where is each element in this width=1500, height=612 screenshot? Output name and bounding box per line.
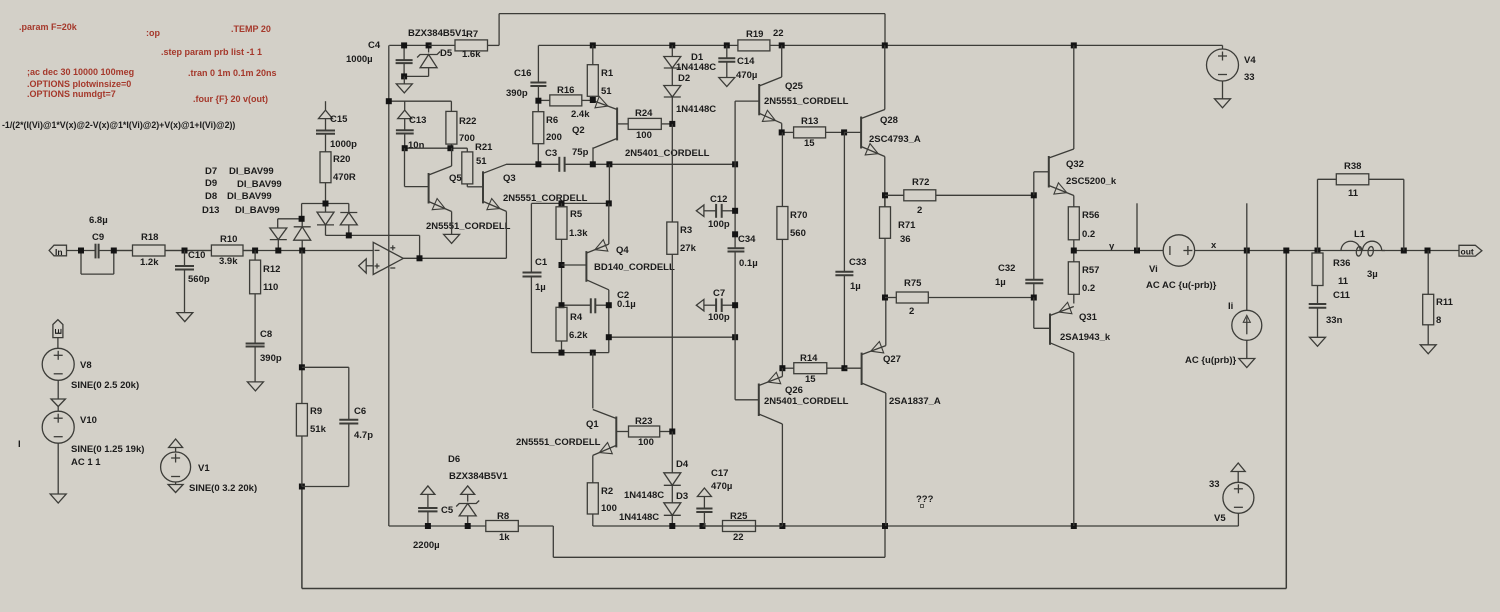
value SINE V8	[71, 380, 139, 391]
label C15	[330, 114, 348, 125]
wire R9/C6 top link	[302, 367, 349, 420]
resistor R72	[885, 190, 1034, 201]
resistor R56	[1068, 207, 1079, 251]
wire R38 right leg	[1403, 179, 1405, 250]
label C2	[617, 290, 629, 301]
label V10	[80, 415, 97, 426]
label Q4	[616, 245, 629, 256]
wire comp line y337	[609, 336, 735, 338]
label R8	[497, 511, 509, 522]
resistor R12	[250, 251, 261, 344]
svg-text:C14: C14	[737, 56, 755, 67]
svg-text:.OPTIONS plotwinsize=0: .OPTIONS plotwinsize=0	[27, 79, 131, 89]
port out	[1459, 245, 1482, 256]
label BZX384B5V1 top	[408, 28, 467, 39]
svg-text:DI_BAV99: DI_BAV99	[235, 205, 280, 216]
svg-text:51k: 51k	[310, 424, 327, 435]
svg-text:15: 15	[804, 138, 815, 149]
resistor R1	[587, 45, 598, 100]
value DI_BAV99 D8	[227, 191, 272, 202]
label C12	[710, 194, 727, 205]
svg-text:33: 33	[1209, 479, 1220, 490]
svg-text:110: 110	[263, 282, 278, 293]
svg-text:1N4148C: 1N4148C	[619, 512, 659, 523]
svg-text:C7: C7	[713, 288, 725, 299]
svg-text:1N4148C: 1N4148C	[676, 62, 716, 73]
transistor Q27	[862, 342, 886, 394]
svg-text:470R: 470R	[333, 172, 356, 183]
resistor R38	[1336, 174, 1404, 185]
ground under V1	[168, 482, 183, 493]
svg-text:R23: R23	[635, 416, 652, 427]
junction dots spreader top	[559, 200, 612, 206]
svg-text:C13: C13	[409, 115, 426, 126]
label R25	[730, 511, 748, 522]
junction dots bias line	[402, 145, 454, 151]
ground under Ii	[1239, 340, 1255, 367]
ground under C10	[177, 313, 193, 322]
label Q31	[1079, 312, 1098, 323]
svg-text:C3: C3	[545, 148, 557, 159]
label Q26	[785, 385, 803, 396]
svg-text:1N4148C: 1N4148C	[624, 490, 664, 501]
value 1000u	[346, 54, 373, 65]
wire supply branch y101	[389, 101, 452, 111]
svg-text:R71: R71	[898, 220, 916, 231]
diode D9 pair left-up	[294, 219, 311, 251]
value 1.6k	[462, 49, 481, 60]
svg-text:Q3: Q3	[503, 173, 516, 184]
voltage source V1	[161, 452, 191, 482]
value 100 R23	[638, 437, 654, 448]
svg-text:R24: R24	[635, 108, 653, 119]
svg-text:C17: C17	[711, 468, 728, 479]
ground under R11	[1420, 345, 1436, 354]
label V4	[1244, 55, 1256, 66]
label R5	[570, 209, 583, 220]
svg-text:11: 11	[1348, 188, 1359, 199]
svg-text:Q28: Q28	[880, 115, 898, 126]
svg-text:Vi: Vi	[1149, 264, 1158, 275]
label R70	[790, 210, 807, 221]
value 390p C16	[506, 88, 528, 99]
zener diode D6	[456, 486, 479, 526]
diode D7 pair left-down	[270, 228, 287, 251]
label R16	[557, 85, 574, 96]
svg-text:27k: 27k	[680, 243, 697, 254]
svg-text:R25: R25	[730, 511, 748, 522]
wire R13 to Q28 base	[844, 131, 861, 133]
value 15 R13	[804, 138, 815, 149]
value DI_BAV99 D7	[229, 166, 274, 177]
label 2SC5200_k	[1066, 176, 1117, 187]
svg-text:C15: C15	[330, 114, 348, 125]
svg-text:V5: V5	[1214, 513, 1226, 524]
arrow above V1	[169, 439, 183, 452]
value 200	[546, 132, 562, 143]
svg-text:11: 11	[1338, 276, 1349, 287]
label 2N5551_CORDELL Q25	[764, 96, 849, 107]
label R72	[912, 177, 929, 188]
svg-text:0.2: 0.2	[1082, 283, 1095, 294]
transistor Q4	[586, 240, 608, 290]
svg-text:Q31: Q31	[1079, 312, 1098, 323]
svg-text:R38: R38	[1344, 161, 1361, 172]
junction dot supply branch	[386, 98, 392, 104]
label 2SA1837_A	[889, 396, 941, 407]
value DI_BAV99 D9	[237, 179, 282, 190]
wire cascode stub	[608, 164, 610, 203]
label R75	[904, 278, 922, 289]
value 700	[459, 133, 475, 144]
label R10	[220, 234, 237, 245]
svg-text:D4: D4	[676, 459, 689, 470]
value AC Ii	[1185, 355, 1236, 366]
resistor R2	[587, 483, 598, 526]
svg-text:1.2k: 1.2k	[140, 257, 159, 268]
svg-text:In: In	[55, 247, 63, 257]
svg-text:2N5401_CORDELL: 2N5401_CORDELL	[764, 396, 849, 407]
wire output line	[1074, 250, 1459, 252]
label Q28	[880, 115, 898, 126]
junction dots C5 D6	[425, 523, 471, 529]
label 2N5401_CORDELL Q2	[625, 148, 710, 159]
label I marker	[18, 439, 21, 450]
svg-text:560: 560	[790, 228, 806, 239]
svg-text:DI_BAV99: DI_BAV99	[229, 166, 274, 177]
svg-text:.four {F} 20 v(out): .four {F} 20 v(out)	[193, 94, 268, 104]
resistor R16	[538, 95, 592, 106]
value 2 R72	[917, 205, 922, 216]
svg-text:.tran 0 1m 0.1m 20ns: .tran 0 1m 0.1m 20ns	[188, 68, 277, 78]
inductor L1	[1341, 241, 1385, 256]
label Q1	[586, 419, 599, 430]
label node y	[1109, 241, 1115, 252]
label 2SA1943_k	[1060, 332, 1111, 343]
svg-text:470µ: 470µ	[736, 70, 757, 81]
value 470u C14	[736, 70, 757, 81]
svg-text:R10: R10	[220, 234, 237, 245]
label D6	[448, 454, 460, 465]
svg-text:C32: C32	[998, 263, 1015, 274]
value 1N4148C D1	[676, 62, 716, 73]
label V8	[80, 360, 92, 371]
label R20	[333, 154, 350, 165]
svg-text:2SA1943_k: 2SA1943_k	[1060, 332, 1111, 343]
value 1.2k	[140, 257, 159, 268]
svg-text:R13: R13	[801, 116, 818, 127]
label R3	[680, 225, 692, 236]
wire Q27 emitter up	[885, 298, 887, 346]
svg-text:R5: R5	[570, 209, 583, 220]
value 0.1u C34	[739, 258, 758, 269]
value 1N4148C D4	[624, 490, 664, 501]
svg-text:BZX384B5V1: BZX384B5V1	[449, 471, 508, 482]
diode D1	[664, 45, 681, 85]
wire Q4 base	[562, 264, 587, 266]
value 1u C33	[850, 281, 861, 292]
svg-text:E: E	[53, 328, 63, 334]
label R6	[546, 115, 558, 126]
svg-text:R3: R3	[680, 225, 692, 236]
label R9	[310, 406, 322, 417]
diode D8 pair right-down	[317, 204, 334, 236]
value 6.2k	[569, 330, 588, 341]
value 36	[900, 234, 911, 245]
spice directive .step	[161, 47, 262, 57]
svg-text:R36: R36	[1333, 258, 1350, 269]
svg-text:DI_BAV99: DI_BAV99	[227, 191, 272, 202]
wire Q32 collector up	[1073, 45, 1075, 149]
svg-text:Q27: Q27	[883, 354, 901, 365]
transistor Q2	[593, 96, 617, 148]
label Q25	[785, 81, 804, 92]
capacitor C6	[302, 420, 358, 487]
capacitor C7	[696, 298, 735, 312]
svg-text:D3: D3	[676, 491, 688, 502]
value 51 R1	[601, 86, 612, 97]
resistor R4	[556, 307, 567, 352]
value 51k	[310, 424, 327, 435]
label node x	[1211, 240, 1217, 251]
value 0.2 R56	[1082, 229, 1095, 240]
svg-text:R75: R75	[904, 278, 922, 289]
value 33 V5	[1209, 479, 1220, 490]
capacitor C4	[396, 45, 413, 76]
svg-text:100p: 100p	[708, 219, 730, 230]
label C14	[737, 56, 755, 67]
resistor R14	[782, 363, 844, 374]
wire bottom rail	[302, 251, 1286, 589]
label R14	[800, 353, 818, 364]
value 1000p	[330, 139, 357, 150]
svg-text:Q26: Q26	[785, 385, 803, 396]
wire R14 to Q27 base	[844, 367, 861, 369]
label D1	[691, 52, 704, 63]
svg-text:V8: V8	[80, 360, 92, 371]
svg-text:C6: C6	[354, 406, 366, 417]
junction dots VAS line	[535, 161, 738, 167]
svg-text:C4: C4	[368, 40, 381, 51]
wire main positive rail	[539, 44, 1223, 46]
value 560p	[188, 274, 210, 285]
wire neg supply line	[389, 526, 885, 557]
value 22 R19	[773, 28, 784, 39]
svg-text:2N5401_CORDELL: 2N5401_CORDELL	[625, 148, 710, 159]
expression text	[2, 120, 235, 130]
label R19	[746, 29, 763, 40]
svg-text:R2: R2	[601, 486, 613, 497]
value 3.9k	[219, 256, 238, 267]
svg-text:.OPTIONS numdgt=7: .OPTIONS numdgt=7	[27, 89, 116, 99]
wire to Q31 base	[1034, 298, 1050, 329]
transistor Q3	[483, 164, 506, 211]
wire supply vertical left	[388, 45, 390, 526]
wire bias line y148	[405, 147, 468, 149]
svg-text:R1: R1	[601, 68, 614, 79]
svg-text:1.6k: 1.6k	[462, 49, 481, 60]
label C32	[998, 263, 1015, 274]
capacitor C16	[530, 45, 546, 100]
label C5	[441, 505, 454, 516]
wire Q25 emitter down	[781, 123, 783, 132]
value BZX384B5V1 D6	[449, 471, 508, 482]
label R56	[1082, 210, 1099, 221]
ground under C8	[247, 382, 263, 391]
svg-text:.TEMP 20: .TEMP 20	[231, 24, 271, 34]
svg-text:15: 15	[805, 374, 816, 385]
wire clamp bottom line	[326, 235, 420, 258]
svg-text:Q25: Q25	[785, 81, 804, 92]
wire Q31 collector down	[1073, 353, 1075, 526]
wire output bus	[593, 525, 1239, 527]
label R36	[1333, 258, 1350, 269]
diode D2	[664, 86, 681, 124]
svg-text:2N5551_CORDELL: 2N5551_CORDELL	[426, 221, 511, 232]
label 2N5401_CORDELL Q26	[764, 396, 849, 407]
value 560	[790, 228, 806, 239]
resistor R20	[320, 152, 331, 204]
svg-text:2SC4793_A: 2SC4793_A	[869, 134, 921, 145]
junction dots C32	[1031, 192, 1037, 300]
label 2N5551_CORDELL Q5	[426, 221, 511, 232]
ground under C11	[1310, 337, 1326, 346]
value DI_BAV99 D13	[235, 205, 280, 216]
label R7	[466, 29, 478, 40]
wire Q1 collector	[592, 353, 594, 409]
wire Q4 emitter up	[608, 203, 610, 244]
svg-text:100: 100	[636, 130, 652, 141]
value 1k	[499, 532, 510, 543]
junction dots input line	[78, 248, 305, 254]
value 100p C12	[708, 219, 730, 230]
svg-text:DI_BAV99: DI_BAV99	[237, 179, 282, 190]
resistor R24	[628, 118, 672, 129]
svg-text:200: 200	[546, 132, 562, 143]
svg-text:SINE(0 3.2 20k): SINE(0 3.2 20k)	[189, 483, 257, 494]
value 470u C17	[711, 481, 732, 492]
label D8	[205, 191, 217, 202]
svg-text:out: out	[1461, 247, 1474, 257]
resistor R21	[462, 148, 473, 187]
wire R18 to R10	[165, 250, 211, 252]
wire Q25 base	[735, 101, 759, 164]
svg-text:4.7p: 4.7p	[354, 430, 373, 441]
capacitor C5 polarized	[418, 486, 437, 526]
voltage source V10	[42, 411, 74, 443]
diode D13 pair right-up	[340, 204, 357, 236]
label R13	[801, 116, 818, 127]
label C13	[409, 115, 426, 126]
wire Q4 collector down	[608, 290, 610, 353]
svg-text:R57: R57	[1082, 265, 1099, 276]
label C10	[188, 250, 205, 261]
value 470R	[333, 172, 356, 183]
resistor R36	[1312, 251, 1323, 305]
svg-text:BZX384B5V1: BZX384B5V1	[408, 28, 467, 39]
spice directive .param	[19, 22, 78, 32]
svg-text:6.8µ: 6.8µ	[89, 215, 108, 226]
label R12	[263, 264, 280, 275]
resistor R19	[738, 40, 770, 51]
resistor R11	[1423, 251, 1434, 345]
ground under V4	[1215, 81, 1231, 108]
svg-text:Q4: Q4	[616, 245, 629, 256]
label C17	[711, 468, 728, 479]
junction dot R5/Q4 base	[559, 262, 565, 268]
svg-text:-1/(2*(I(Vi)@1*V(x)@2-V(x)@1*I: -1/(2*(I(Vi)@1*V(x)@2-V(x)@1*I(Vi)@2)+V(…	[2, 120, 235, 130]
capacitor C9	[96, 244, 99, 259]
svg-text:R56: R56	[1082, 210, 1099, 221]
spice directive .TEMP	[231, 24, 271, 34]
label R22	[459, 116, 476, 127]
label Q27	[883, 354, 901, 365]
label C3	[545, 148, 557, 159]
value 4.7p	[354, 430, 373, 441]
svg-text:Q32: Q32	[1066, 159, 1084, 170]
svg-text:R19: R19	[746, 29, 763, 40]
svg-text:R7: R7	[466, 29, 478, 40]
svg-text:D2: D2	[678, 73, 690, 84]
label 2N5551_CORDELL Q3	[503, 193, 588, 204]
wire R38 left leg	[1318, 179, 1337, 250]
svg-text:2SA1837_A: 2SA1837_A	[889, 396, 941, 407]
wire C9 to R18	[99, 250, 133, 252]
svg-text:36: 36	[900, 234, 911, 245]
label L1	[1354, 229, 1366, 240]
resistor R23	[629, 426, 673, 437]
label R4	[570, 312, 583, 323]
transistor Q5	[429, 166, 452, 212]
label Q32	[1066, 159, 1084, 170]
label Q5	[449, 173, 462, 184]
svg-text:0.1µ: 0.1µ	[739, 258, 758, 269]
svg-text:2.4k: 2.4k	[571, 109, 590, 120]
transistor Q28	[861, 110, 885, 157]
label D5	[440, 48, 453, 59]
svg-text:;ac dec 30 10000 100meg: ;ac dec 30 10000 100meg	[27, 67, 134, 77]
svg-text:Q1: Q1	[586, 419, 599, 430]
net marker at opamp + input	[359, 259, 374, 273]
svg-text:C34: C34	[738, 234, 756, 245]
ground under V10	[50, 443, 66, 503]
resistor R13	[782, 127, 844, 138]
capacitor C13 polarized	[396, 101, 414, 148]
zener diode D5	[404, 45, 440, 76]
value 11 R36	[1338, 276, 1349, 287]
wire R21 to Q3 base	[467, 186, 483, 188]
wire Q26 base	[735, 399, 759, 401]
value 11 R38	[1348, 188, 1359, 199]
net flag E	[53, 320, 64, 338]
junction dots R9 top	[299, 364, 305, 489]
label D9	[205, 178, 217, 189]
svg-text:390p: 390p	[506, 88, 528, 99]
svg-text:AC AC {u(-prb)}: AC AC {u(-prb)}	[1146, 280, 1217, 291]
svg-text:1000p: 1000p	[330, 139, 357, 150]
svg-text:C10: C10	[188, 250, 205, 261]
label R21	[475, 142, 493, 153]
svg-text:x: x	[1211, 240, 1217, 251]
svg-text:1k: 1k	[499, 532, 510, 543]
svg-text:2200µ: 2200µ	[413, 540, 440, 551]
wire V5 to bus	[1237, 513, 1239, 526]
wire inv node vertical	[301, 251, 303, 404]
label D4	[676, 459, 689, 470]
capacitor C14	[718, 45, 735, 61]
svg-text:D8: D8	[205, 191, 217, 202]
svg-text:Q2: Q2	[572, 125, 585, 136]
